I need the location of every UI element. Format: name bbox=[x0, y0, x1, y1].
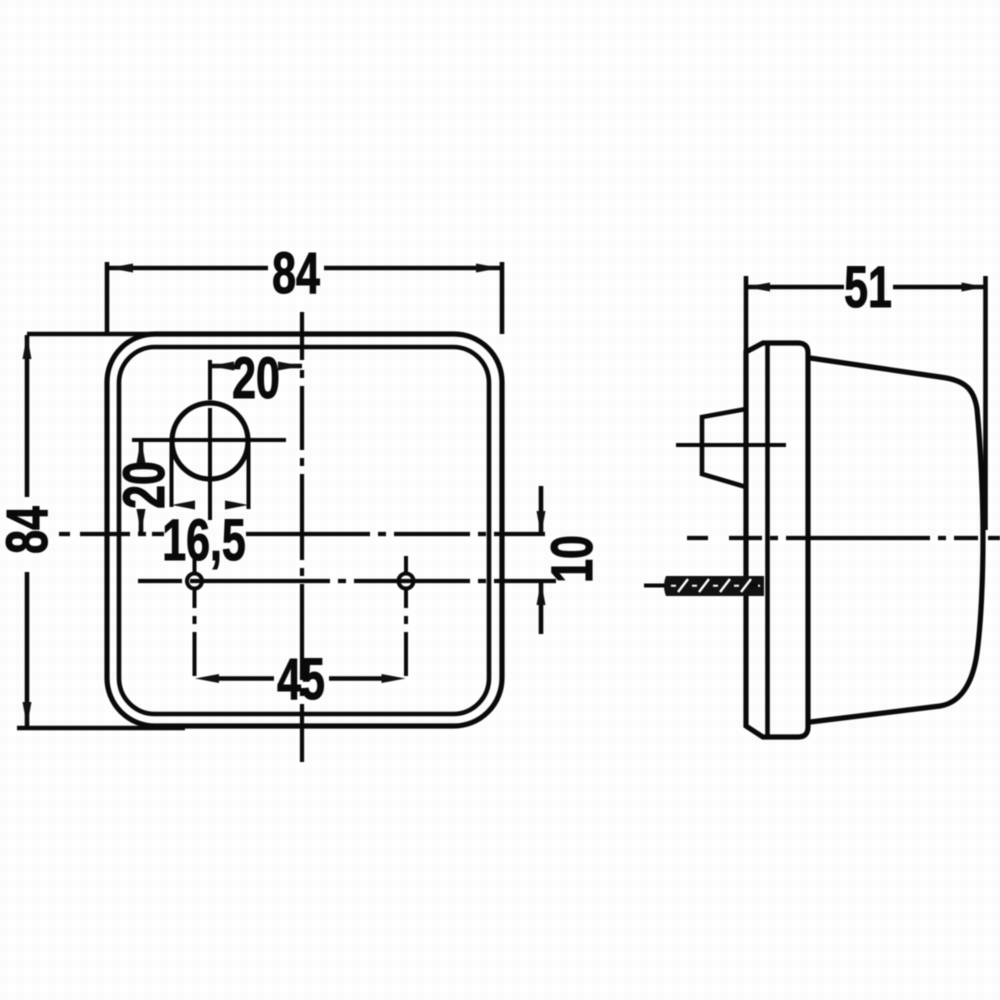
mounting hole right bbox=[399, 574, 414, 589]
dimension 84 width line bbox=[109, 266, 500, 271]
side view 51 extension line right bbox=[983, 276, 988, 530]
side view upper tab bbox=[702, 409, 746, 487]
front view inner outline bbox=[119, 347, 489, 714]
svg-text:45: 45 bbox=[277, 647, 325, 712]
mounting holes centerline bbox=[138, 579, 556, 583]
dimension 16.5 extension line right bbox=[247, 437, 251, 509]
dimension 16.5 extension line left bbox=[170, 445, 174, 507]
dimension 84 height line bbox=[25, 335, 30, 726]
dimension 51 arrow left bbox=[746, 283, 770, 292]
stud centerline bbox=[644, 584, 758, 588]
dimension 84 width arrow right bbox=[476, 264, 500, 273]
mounting hole left bbox=[187, 574, 202, 589]
dimension 20 horizontal line with arrows bbox=[210, 364, 302, 369]
dimension 84 height arrow bottom bbox=[23, 702, 32, 726]
dimension 84 width extension line left bbox=[105, 262, 110, 334]
dimension 20 vertical line with arrows bbox=[139, 439, 144, 533]
front view vertical centerline bbox=[300, 312, 304, 762]
bulb hole circle bbox=[172, 403, 248, 479]
svg-text:20: 20 bbox=[232, 346, 280, 411]
dimension 45 arrow left bbox=[195, 674, 219, 683]
bulb hole horizontal centerline bbox=[132, 438, 286, 442]
threaded stud bbox=[664, 576, 764, 596]
dimension 51 arrow right bbox=[962, 283, 986, 292]
side view horizontal centerline bbox=[687, 536, 1000, 540]
side view housing body bbox=[810, 358, 983, 722]
dimension 45 line bbox=[216, 676, 384, 681]
dimension 16.5 arrows bbox=[172, 501, 196, 510]
mounting hole left vertical centerline bbox=[193, 556, 197, 676]
dimension 84 width extension line right bbox=[500, 262, 505, 334]
side view 51 extension line left bbox=[744, 276, 749, 353]
dimension 10 line lower with up arrow bbox=[539, 582, 544, 634]
dimension 45 arrow right bbox=[382, 674, 406, 683]
mounting hole right vertical centerline bbox=[404, 556, 408, 676]
dimension 84 height extension line top bbox=[27, 332, 155, 337]
svg-text:84: 84 bbox=[272, 241, 320, 306]
svg-text:10: 10 bbox=[540, 535, 605, 583]
svg-text:51: 51 bbox=[844, 255, 892, 320]
svg-text:16,5: 16,5 bbox=[162, 508, 246, 573]
dimension 84 height arrow top bbox=[23, 335, 32, 359]
svg-text:84: 84 bbox=[0, 506, 60, 554]
svg-text:20: 20 bbox=[112, 461, 177, 509]
dimension 51 line bbox=[748, 285, 984, 290]
bulb hole vertical centerline bbox=[208, 360, 212, 520]
side view bezel inner line bbox=[765, 344, 770, 738]
side view bezel outline bbox=[746, 343, 808, 737]
dimension 10 line upper with down arrow bbox=[539, 486, 544, 534]
front view horizontal centerline bbox=[59, 532, 545, 536]
front view outer outline bbox=[107, 334, 502, 726]
side view upper tab centerline bbox=[676, 443, 786, 447]
dimension 84 height extension line bottom bbox=[17, 726, 185, 731]
dimension 84 width arrow left bbox=[109, 264, 133, 273]
